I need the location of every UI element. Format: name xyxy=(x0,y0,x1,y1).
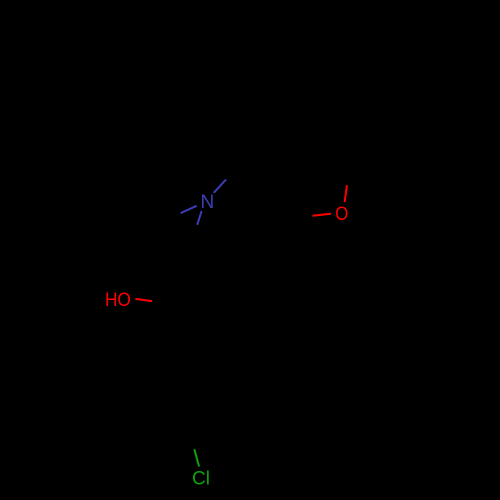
wire: bond N1 down xyxy=(197,211,201,225)
wire: bond O1 up xyxy=(345,185,347,202)
wire: bond O1 left xyxy=(313,214,332,216)
wire: bond N1 up-right xyxy=(214,180,226,193)
wire: bond Cl1 up xyxy=(194,449,199,466)
wire: bond N1 left xyxy=(181,206,197,213)
svg-text:N: N xyxy=(201,192,215,213)
wire: bond O2 right xyxy=(135,299,152,301)
svg-text:O: O xyxy=(335,203,348,224)
svg-text:HO: HO xyxy=(105,289,131,310)
svg-text:Cl: Cl xyxy=(192,468,210,489)
